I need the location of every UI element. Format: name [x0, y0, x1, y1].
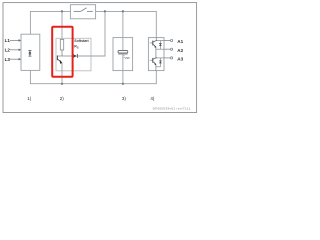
wire DC- bottom rail — [30, 70, 156, 83]
label document number — [153, 107, 191, 111]
inverter internal collector entry wire — [155, 38, 157, 41]
node junction dot (rail / soft-charge resistor branch) — [61, 10, 63, 12]
wire rail to capacitor top plate — [122, 11, 124, 50]
svg-text:A1: A1 — [177, 39, 183, 44]
label A2 — [177, 48, 183, 53]
svg-text:A2: A2 — [177, 48, 183, 53]
inverter node line A2 (middle) — [156, 48, 164, 50]
wire arrow L2 into rectifier — [10, 49, 21, 52]
IGBT T1 (top) — [150, 40, 157, 49]
wire thyristor emitter down to bottom rail — [61, 63, 63, 84]
inverter internal wire middle node down to lower IGBT — [155, 49, 157, 58]
wire capacitor bottom plate to bottom rail — [122, 54, 124, 84]
output terminal A2 wire and circle — [164, 48, 173, 50]
svg-text:1): 1) — [27, 96, 32, 101]
diode D (charge diode) — [73, 54, 77, 58]
label CZW — [122, 54, 130, 60]
node junction dot (bottom rail / soft-charge branch) — [61, 83, 63, 85]
label 4) — [150, 96, 155, 101]
label L2 — [5, 48, 11, 53]
red highlight box around soft-charge circuit — [52, 27, 72, 77]
svg-text:DF000539v01 rev/7111: DF000539v01 rev/7111 — [153, 107, 191, 111]
label 2) — [60, 96, 65, 101]
svg-text:L2: L2 — [5, 48, 11, 53]
label Rs — [74, 45, 79, 50]
label A3 — [177, 57, 183, 62]
label L1 — [5, 38, 11, 43]
wire arrow L1 into rectifier — [10, 39, 21, 42]
thyristor / SCR symbol Q (soft-charge bypass) — [57, 56, 62, 64]
wire diode cathode to rail riser — [77, 11, 105, 56]
inverter node line A3 (bottom) — [156, 57, 164, 59]
capacitor CZW plates — [118, 51, 128, 55]
node junction dot (rail / DC-link capacitor top) — [122, 10, 124, 12]
wire arrow L3 into rectifier — [10, 58, 21, 61]
node junction dot (rail / bypass diode branch) — [104, 10, 106, 12]
svg-text:4): 4) — [150, 96, 155, 101]
label L3 — [5, 57, 11, 62]
wire from top rail into soft-charge resistor — [61, 11, 63, 39]
svg-text:L3: L3 — [5, 57, 11, 62]
page border frame — [3, 3, 197, 113]
soft charge resistor Rs — [60, 39, 63, 50]
inverter box 4) — [148, 38, 164, 71]
IGBT T2 (bottom) — [150, 58, 157, 71]
DC-link capacitor box 3) — [113, 38, 133, 71]
freewheel diode D2 (bottom) — [156, 58, 162, 67]
wire DC+ top rail right (from bypass switch to inverter) — [96, 11, 157, 37]
label 1) — [27, 96, 32, 101]
svg-text:CZW: CZW — [122, 54, 130, 60]
freewheel diode D1 (top) — [159, 41, 162, 50]
label 3) — [122, 96, 127, 101]
svg-text:Softstart: Softstart — [74, 39, 89, 43]
bypass switch box (top) — [70, 5, 95, 19]
svg-text:2): 2) — [60, 96, 65, 101]
output terminal A1 wire and circle — [164, 39, 173, 41]
varistor / transient suppressor symbol inside rectifier — [28, 50, 31, 56]
soft charge box 2) — [56, 38, 91, 71]
label Softstart — [74, 39, 89, 43]
wire node to diode anode — [62, 55, 73, 57]
svg-text:3): 3) — [122, 96, 127, 101]
bypass switch contact S1 — [74, 8, 93, 12]
wire resistor bottom to thyristor node — [61, 50, 63, 56]
inverter node line A1 (top) — [156, 40, 164, 42]
svg-text:L1: L1 — [5, 38, 11, 43]
svg-text:A3: A3 — [177, 57, 183, 62]
rectifier box 1) — [21, 34, 40, 70]
output terminal A3 wire and circle — [164, 57, 173, 59]
wire DC+ top rail left (from rectifier top to bypass switch) — [30, 11, 70, 34]
node junction dot (bottom rail / DC-link capacitor bottom) — [122, 83, 124, 85]
label A1 — [177, 39, 183, 44]
